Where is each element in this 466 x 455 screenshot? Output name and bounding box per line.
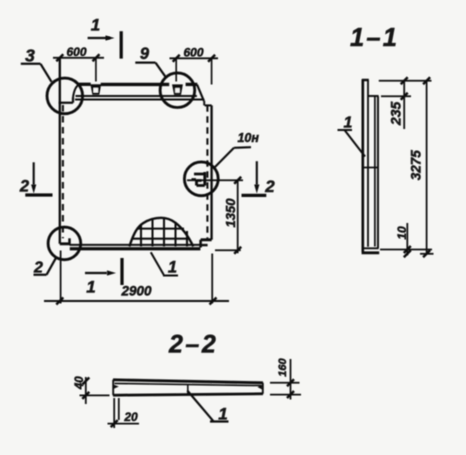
svg-text:10: 10 (395, 226, 409, 240)
svg-text:2: 2 (264, 177, 275, 196)
svg-text:2: 2 (33, 260, 43, 277)
svg-text:2900: 2900 (120, 284, 152, 299)
svg-text:1–1: 1–1 (350, 24, 397, 52)
svg-text:10н: 10н (237, 131, 259, 145)
svg-text:40: 40 (74, 376, 86, 390)
svg-text:3: 3 (25, 46, 35, 66)
svg-text:1: 1 (218, 405, 227, 424)
svg-text:600: 600 (66, 45, 86, 59)
svg-text:1: 1 (168, 259, 177, 277)
svg-text:1: 1 (344, 115, 353, 132)
svg-text:235: 235 (388, 102, 404, 127)
svg-text:600: 600 (183, 46, 203, 60)
svg-text:3275: 3275 (408, 150, 423, 181)
svg-text:160: 160 (277, 358, 289, 377)
svg-text:1350: 1350 (223, 198, 238, 228)
svg-text:9: 9 (140, 45, 150, 63)
svg-text:2: 2 (19, 178, 29, 196)
svg-text:1: 1 (91, 16, 100, 35)
svg-text:20: 20 (123, 410, 138, 424)
svg-text:1: 1 (86, 278, 95, 297)
svg-text:2–2: 2–2 (168, 331, 216, 359)
